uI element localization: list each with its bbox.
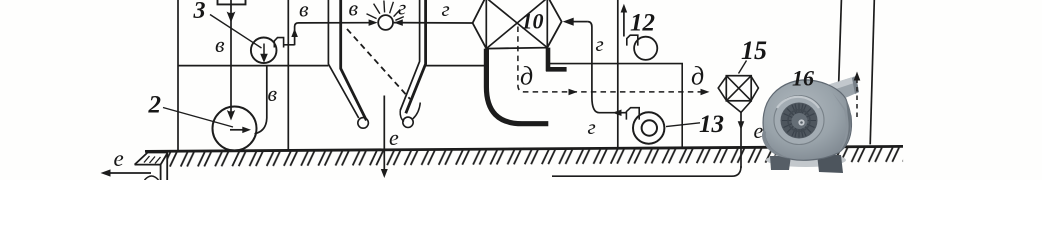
duct wall left of sieve 10 [485,0,487,49]
white page background [0,0,1042,180]
left chute circle [358,118,369,129]
dashed light-fraction diagonal [347,29,410,99]
duct from fan 3 outlet [284,44,295,46]
leader line of label 2 [163,108,233,128]
fan 13 outer circle [633,112,664,143]
top outlet bracket [218,0,246,4]
svg-text:г: г [442,0,450,21]
svg-text:15: 15 [741,36,767,65]
svg-text:в: в [215,32,225,57]
ground line [145,146,903,167]
svg-text:12: 12 [630,10,655,37]
below-ground waste return line [552,166,741,176]
sluice 15 funnel [727,101,751,112]
svg-text:е: е [389,125,399,150]
riser from machine 2 [255,66,267,134]
aspiration line left with arrow into aspirator [301,19,378,26]
leader line of label 15 [739,61,747,74]
svg-text:г: г [596,32,604,56]
sieve 10 X cross [486,0,547,49]
svg-text:г: г [398,0,406,20]
arrow from fan 13 [613,110,622,117]
thick duct stub [546,48,567,72]
waste drop line with arrow [738,112,745,168]
svg-text:в: в [268,81,278,106]
exhaust arrow of cyclone 12 [621,4,628,37]
sluice 15 left point [718,77,726,101]
long horizontal frame line left segment [178,65,328,67]
fan 13 outlet box [626,108,639,120]
right chute circle [403,117,413,127]
machine 2 internal right arrow [230,127,251,134]
below-ground boot box [135,153,168,181]
sluice 15 right point [751,77,758,101]
central cleaned-grain line with arrow below ground [381,96,388,179]
hopper right wall thick line [406,0,426,113]
duct wall right of sieve 10 [546,0,548,48]
fan 16 photo [762,76,859,173]
riser with up arrow to aspiration line [291,23,301,45]
svg-text:16: 16 [792,66,814,91]
svg-text:в: в [299,0,309,22]
machine frame line A [287,0,289,151]
cyclone 12 circle [634,37,657,60]
hopper right wall thin line [400,0,419,111]
aspirator rays [367,1,404,21]
leader line of label 3 [210,15,262,49]
svg-text:2: 2 [148,92,162,119]
fan 3 circle [251,38,277,64]
dashed exhaust up arrow [854,72,861,118]
right chute wrap curve [400,103,420,122]
machine frame line mid [617,0,619,148]
svg-text:13: 13 [699,111,724,138]
tall duct line left [839,0,842,86]
left frame line [177,0,179,151]
sieve hexagon 10 [473,0,562,49]
svg-text:10: 10 [522,9,544,34]
thick elbow air pipe [486,49,548,124]
tall duct line right [870,0,874,144]
recirculation arrow into sieve 10 [563,18,588,26]
svg-text:3: 3 [193,0,206,24]
svg-text:д: д [691,62,704,91]
fan 13 inner circle [642,120,657,135]
dashed waste line д [518,27,710,96]
hopper left wall thin line [328,0,358,118]
svg-text:е: е [754,118,764,143]
sluice 15 square [726,76,751,101]
aspirator fan circle [378,15,393,30]
fan 3 outlet box [274,38,283,48]
hopper left wall thick line [341,0,367,120]
long horizontal frame line right segment [426,65,487,67]
svg-text:г: г [588,115,596,139]
leader line of label 13 [666,123,700,127]
svg-text:д: д [520,62,533,91]
fan 3 internal arrow [260,44,268,63]
cyclone 12 outlet box [627,35,638,45]
cleaned grain arrow bottom left [101,169,152,176]
svg-text:е: е [114,146,124,171]
sluice 15 X cross [726,76,751,101]
recirculation duct down [588,22,626,113]
aspiration line right with arrow into aspirator [394,19,473,26]
machine 2 circle [213,107,257,151]
svg-text:в: в [349,0,359,21]
grain feed line with down arrows [227,0,236,121]
thin duct line to corner [550,64,682,149]
